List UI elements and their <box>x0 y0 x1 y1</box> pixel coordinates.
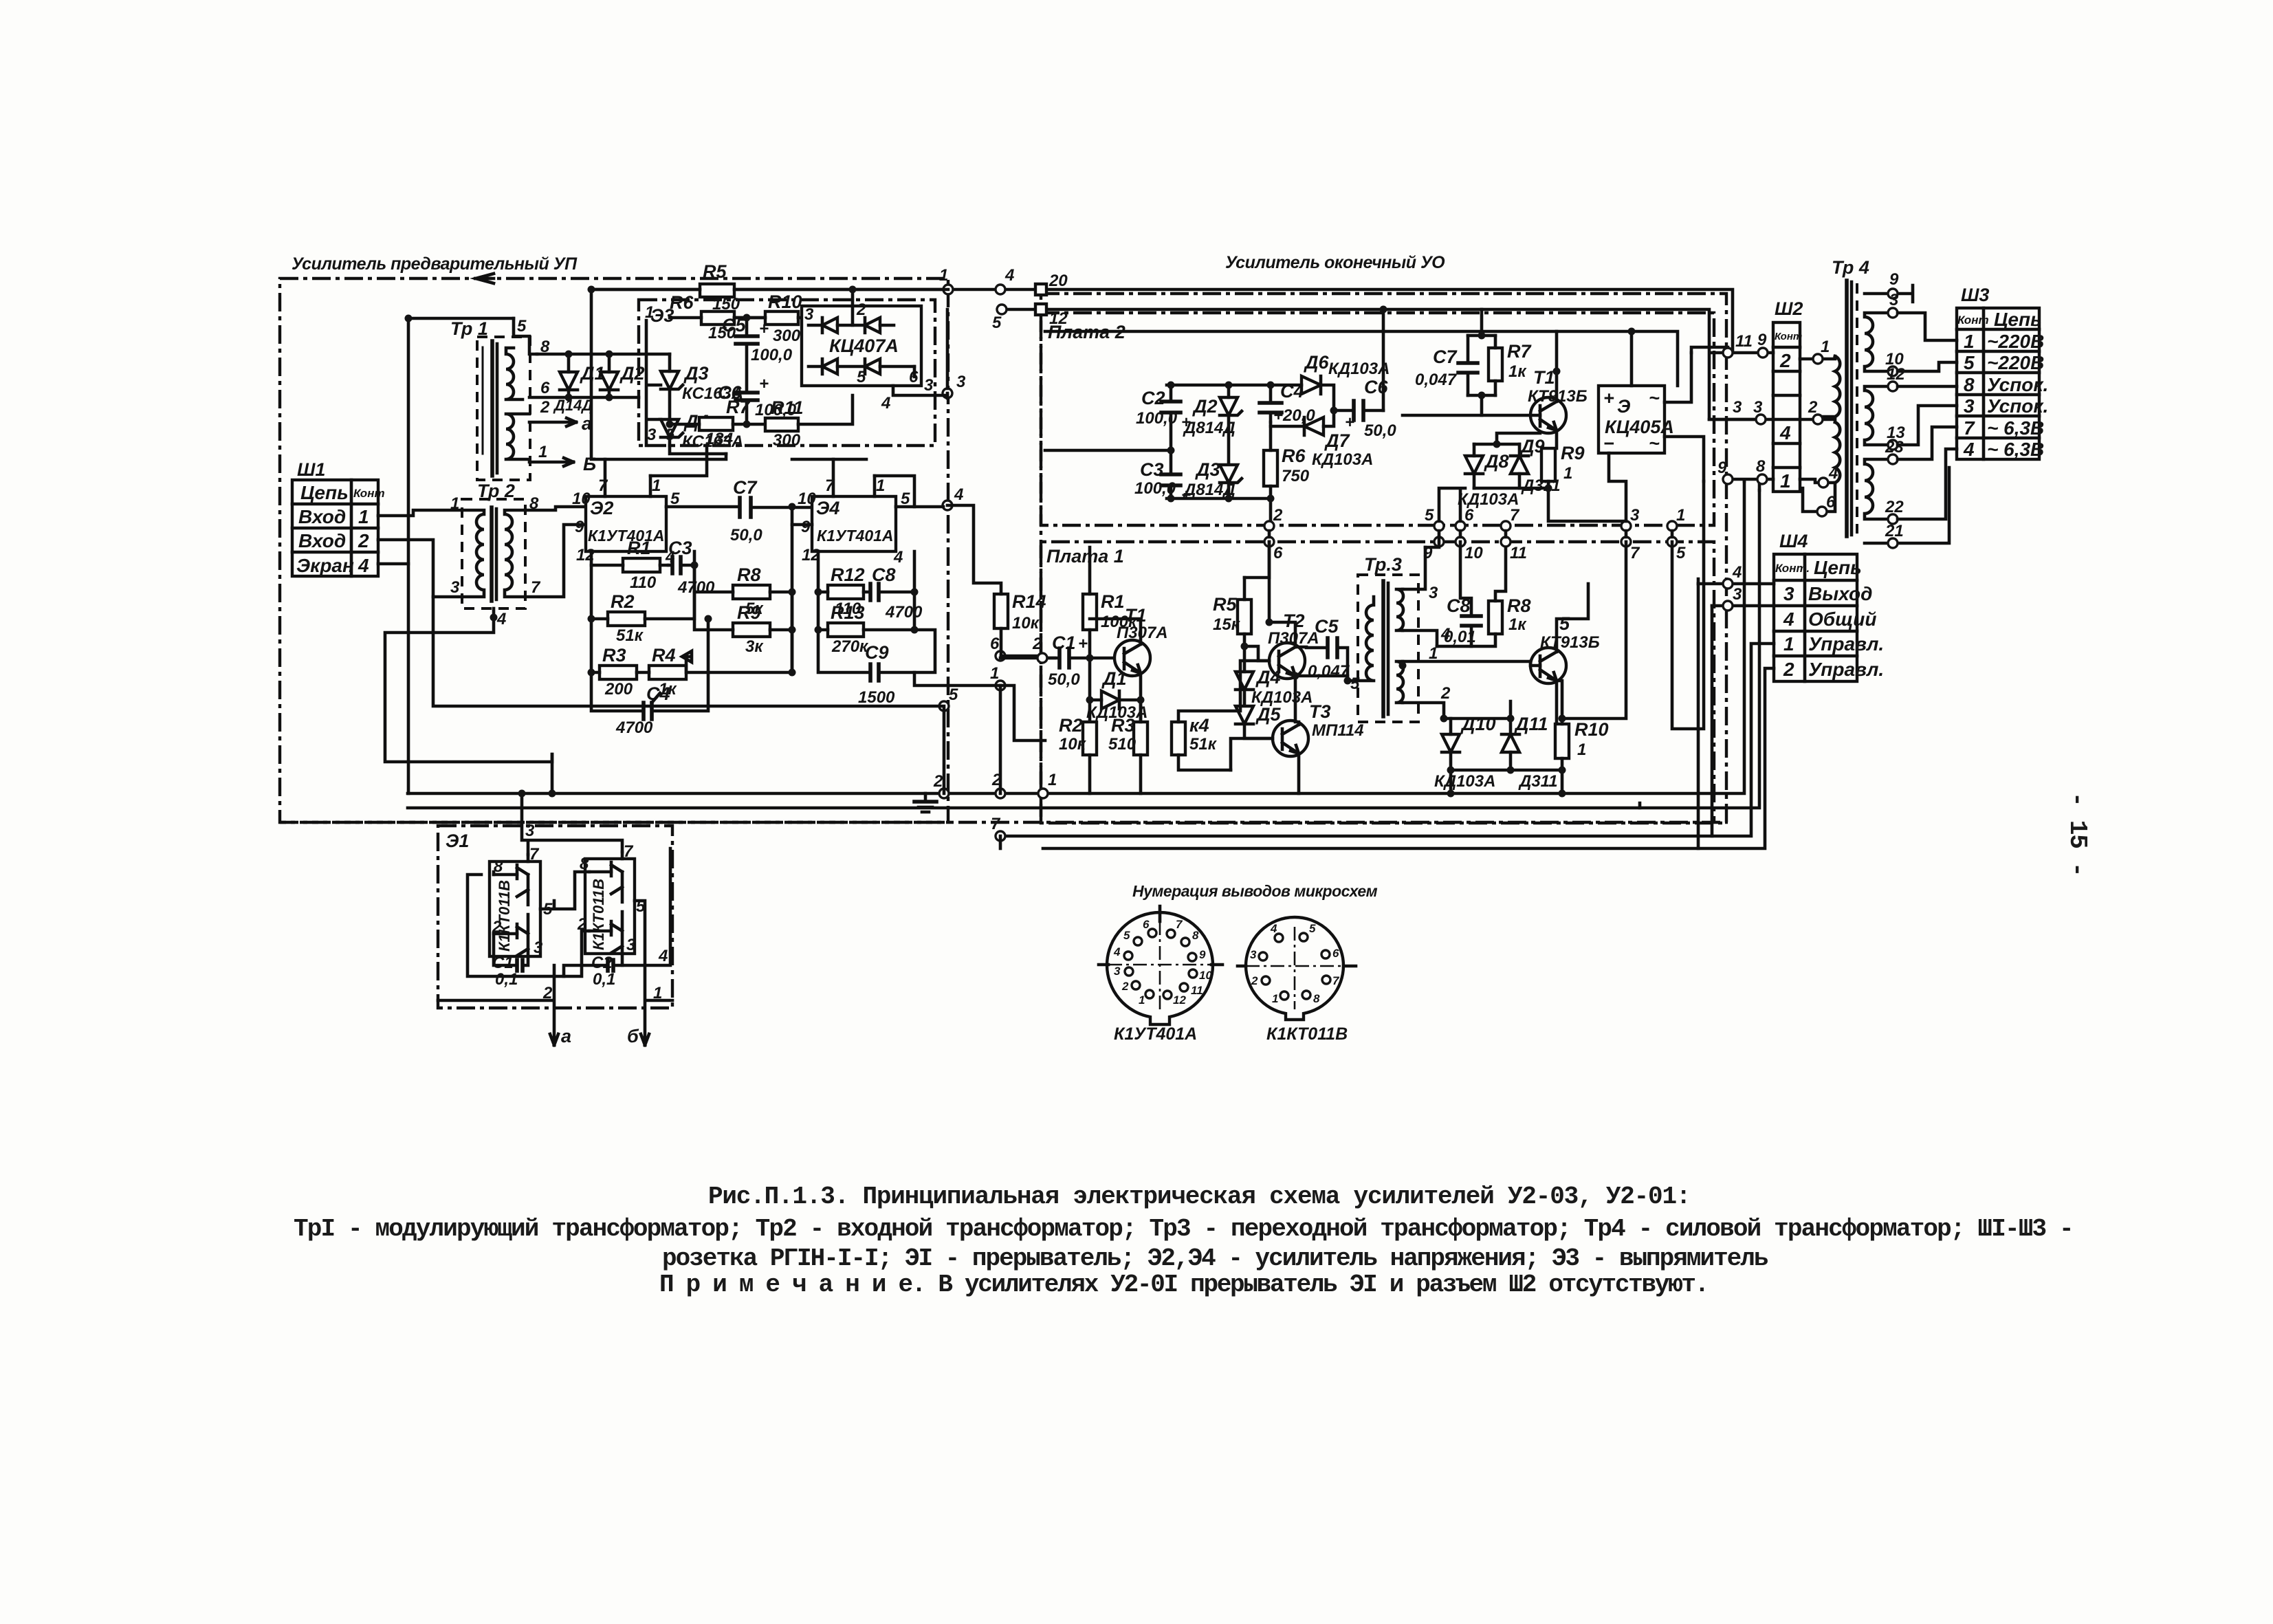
capacitor C3 (UP) <box>668 538 715 597</box>
node 1/5 <box>1667 521 1677 531</box>
svg-text:2: 2 <box>542 984 553 1002</box>
node 3 mid left <box>943 388 952 398</box>
node 6/10 <box>1456 521 1465 531</box>
svg-text:С3: С3 <box>1140 459 1164 480</box>
svg-text:R8: R8 <box>737 564 761 585</box>
svg-text:КТ913Б: КТ913Б <box>1540 633 1600 652</box>
transformer Tr3 <box>1348 547 1530 722</box>
wire: node 6/1 jogs <box>914 672 1000 793</box>
svg-text:3: 3 <box>1753 398 1763 417</box>
wire: misc risers right <box>1672 347 1728 729</box>
svg-text:4: 4 <box>1270 922 1277 935</box>
op-amp U E2 K1UT401A <box>572 459 680 567</box>
svg-text:4: 4 <box>1783 608 1794 630</box>
svg-text:9: 9 <box>1199 948 1206 961</box>
svg-text:+: + <box>1078 635 1088 653</box>
diode D6 KD103A <box>1271 352 1390 410</box>
resistor R8 (UO) <box>1471 547 1531 646</box>
svg-text:К1КТ011В: К1КТ011В <box>496 880 513 952</box>
svg-text:Управл.: Управл. <box>1808 633 1884 655</box>
wire: Tr2 pin7 to E2 pin9 <box>525 525 586 597</box>
svg-text:12: 12 <box>1173 994 1186 1007</box>
Tr3 primary winding <box>1348 597 1374 681</box>
resistor R7 <box>670 397 765 448</box>
svg-text:4: 4 <box>881 394 890 413</box>
transistor block U2 K1KT011V <box>577 842 646 954</box>
svg-text:3: 3 <box>924 376 934 395</box>
transistor Q T5 KT913B <box>1530 584 1600 725</box>
svg-text:3: 3 <box>626 936 636 954</box>
resistor R2 (UO) <box>1059 715 1097 793</box>
svg-text:5: 5 <box>1350 674 1360 693</box>
node 12 square <box>1035 304 1046 315</box>
svg-text:8: 8 <box>1964 374 1975 395</box>
capacitor C5 (UO) <box>1295 616 1350 681</box>
svg-text:6: 6 <box>1464 506 1474 525</box>
svg-text:С1: С1 <box>1052 633 1076 653</box>
node 1 on UP edge top <box>943 285 953 294</box>
wire: R3/R4 rail continues to C9 column <box>708 507 792 672</box>
node 1 lower <box>996 681 1005 690</box>
svg-text:5: 5 <box>517 317 527 336</box>
resistor R2 (UP) <box>591 565 694 645</box>
block frame: Plata 2 dash-dot <box>1041 313 1714 525</box>
svg-text:R10: R10 <box>768 292 802 312</box>
wire: bridge pin2 up to rail <box>851 289 855 325</box>
svg-text:- 15 -: - 15 - <box>2063 792 2091 876</box>
block frame: rectifier E3 dash-dot <box>639 300 935 446</box>
svg-text:Нумерация выводов микросхем: Нумерация выводов микросхем <box>1132 882 1378 900</box>
wire: Sh1 Ekran to trunk <box>378 562 408 566</box>
wire: UO second inner rail from pin 12 <box>1045 331 1678 386</box>
svg-text:8: 8 <box>1192 929 1199 942</box>
wire: node6 rail into UO <box>1001 655 1038 658</box>
svg-text:С2: С2 <box>1141 388 1165 408</box>
svg-text:2: 2 <box>1121 980 1129 993</box>
diode D10 KD103A <box>1434 714 1496 791</box>
wire: Sh4 Upravl rows <box>1698 644 1774 848</box>
transistor block U1 K1KT011V <box>490 845 553 957</box>
capacitor C7 (UP interstage) <box>730 477 812 545</box>
connector Sh2 (vertical strip) <box>1773 298 1803 492</box>
wire: long vertical left trunk <box>407 318 410 793</box>
wire: C1 node and base line <box>1000 657 1055 660</box>
svg-text:21: 21 <box>1885 522 1904 540</box>
svg-text:Д2: Д2 <box>1192 396 1218 417</box>
svg-text:2: 2 <box>1808 398 1818 417</box>
svg-text:7: 7 <box>624 842 634 861</box>
wire: E1 out 4 to right <box>622 848 670 965</box>
svg-text:Усилитель оконечный УО: Усилитель оконечный УО <box>1225 253 1445 272</box>
svg-text:11: 11 <box>1510 544 1527 562</box>
svg-text:КД103А: КД103А <box>1328 360 1390 378</box>
node 11/9 row to Sh2 pin2 <box>1712 351 1773 355</box>
svg-text:2: 2 <box>1032 635 1042 653</box>
node 2 plata edge <box>1264 521 1274 531</box>
svg-text:5: 5 <box>1123 929 1130 942</box>
wire: lower double bus B <box>1043 584 1698 848</box>
svg-text:Д8: Д8 <box>1484 451 1509 472</box>
svg-text:4700: 4700 <box>885 603 923 622</box>
svg-text:1500: 1500 <box>858 688 895 707</box>
capacitor C4 (UO) <box>1260 381 1315 425</box>
wire: E1 bottom exits 2 and 1 <box>438 965 558 1045</box>
wire: Sh1 Vhod1 to Tr2 pin1 <box>378 510 462 516</box>
resistor R5 <box>591 261 948 314</box>
svg-text:П307А: П307А <box>1117 624 1168 642</box>
svg-text:Конт: Конт <box>1957 314 1989 327</box>
transistor Q T2 P307A <box>1268 542 1319 722</box>
svg-text:Общий: Общий <box>1808 608 1877 630</box>
svg-text:270к: 270к <box>831 637 869 656</box>
svg-text:R6: R6 <box>670 292 694 313</box>
svg-text:1: 1 <box>1783 633 1794 655</box>
dash-dot bus across bottom <box>280 821 1728 824</box>
diode D2 <box>600 354 645 397</box>
svg-text:К1УТ401А: К1УТ401А <box>817 527 894 545</box>
IC socket K1KT011V outline <box>1238 917 1356 1044</box>
svg-text:6: 6 <box>1143 918 1150 931</box>
svg-text:3: 3 <box>525 822 535 840</box>
svg-text:4: 4 <box>1828 464 1838 483</box>
wire: Sh4 row3 feed <box>1698 582 1774 586</box>
Tr1 winding lower <box>506 414 529 459</box>
node 20 square UO <box>1035 284 1046 295</box>
resistor R1 (UP) <box>591 538 668 592</box>
wire: bridge output to node3 <box>893 366 947 395</box>
svg-text:С7: С7 <box>733 477 758 498</box>
svg-text:0,01: 0,01 <box>1444 628 1476 646</box>
svg-text:100,0: 100,0 <box>1136 409 1178 428</box>
wire: lower double bus A <box>1000 606 1712 836</box>
svg-text:8: 8 <box>1313 992 1320 1005</box>
svg-text:23: 23 <box>1885 438 1904 457</box>
connector table Sh3 <box>1957 285 2048 460</box>
resistor R9 (UO) <box>1541 443 1626 521</box>
resistor R11 <box>765 395 853 450</box>
svg-text:Усилитель предварительный УП: Усилитель предварительный УП <box>292 254 578 274</box>
wire: E1 cross couple left <box>468 875 589 976</box>
rectifier module KC405A <box>1599 331 1704 521</box>
svg-text:2: 2 <box>856 300 866 319</box>
svg-text:Управл.: Управл. <box>1808 659 1884 680</box>
svg-text:3: 3 <box>1250 948 1257 961</box>
svg-text:1: 1 <box>1780 470 1791 492</box>
svg-text:R2: R2 <box>611 591 635 612</box>
svg-text:R4: R4 <box>652 645 676 666</box>
svg-text:50,0: 50,0 <box>1364 421 1396 440</box>
svg-text:Э2: Э2 <box>590 498 613 518</box>
capacitor C1 (UO) <box>1032 633 1116 689</box>
svg-text:5: 5 <box>1559 613 1570 634</box>
wire: node 7 stub <box>999 836 1002 848</box>
svg-text:Экран: Экран <box>296 555 354 576</box>
svg-text:6: 6 <box>1826 493 1836 512</box>
svg-text:3: 3 <box>450 578 460 597</box>
wire: corner stack <box>1640 579 1698 808</box>
wire: E4 pin7 rail <box>792 458 866 461</box>
svg-text:Д814Д: Д814Д <box>1183 419 1236 437</box>
wire: D10/D11 rails <box>1444 701 1562 770</box>
svg-text:7: 7 <box>1510 506 1520 525</box>
svg-text:1: 1 <box>653 984 662 1002</box>
svg-text:7: 7 <box>1332 974 1340 987</box>
svg-text:Выход: Выход <box>1808 583 1872 604</box>
svg-text:Д10: Д10 <box>1460 714 1496 734</box>
svg-text:11: 11 <box>1735 332 1753 351</box>
wire: node1 to T1 area <box>1000 685 1045 740</box>
svg-text:Конт.: Конт. <box>1775 562 1810 575</box>
svg-text:7: 7 <box>531 578 541 597</box>
svg-text:1: 1 <box>358 506 369 527</box>
pin holes with numbers <box>1148 929 1156 937</box>
svg-text:0,047: 0,047 <box>1415 371 1458 389</box>
svg-text:7: 7 <box>598 476 608 495</box>
svg-text:2: 2 <box>1273 506 1283 525</box>
resistor R3 (UO) <box>1108 700 1148 793</box>
svg-text:К1КТ011В: К1КТ011В <box>1266 1024 1348 1044</box>
node 7/11 <box>1501 521 1511 531</box>
svg-text:3: 3 <box>647 426 657 444</box>
Tr4 secondary winding 2 <box>1865 365 1957 450</box>
svg-text:Т1: Т1 <box>1533 367 1555 388</box>
svg-text:Д11: Д11 <box>1514 714 1548 734</box>
Tr4 secondary winding 1 <box>1865 291 1957 376</box>
wire: D8/D9 rails <box>1439 433 1548 521</box>
svg-text:Д4: Д4 <box>1255 667 1281 688</box>
svg-text:2: 2 <box>540 398 550 417</box>
svg-text:3: 3 <box>1630 506 1640 525</box>
svg-text:R3: R3 <box>1111 715 1135 736</box>
resistor R6 <box>670 292 767 342</box>
svg-text:а: а <box>561 1026 571 1046</box>
Tr4 secondary winding 3 <box>1865 427 1957 524</box>
resistor R10 <box>765 292 809 345</box>
svg-text:R2: R2 <box>1059 715 1083 736</box>
svg-text:2: 2 <box>1783 659 1794 680</box>
svg-text:КЦ405А: КЦ405А <box>1605 417 1674 437</box>
svg-text:Успок.: Успок. <box>1987 395 2048 417</box>
transformer Tr2 <box>450 481 541 628</box>
svg-text:С5: С5 <box>1315 616 1339 637</box>
svg-text:7: 7 <box>1630 544 1640 562</box>
svg-text:2: 2 <box>1440 684 1451 703</box>
svg-text:7: 7 <box>1176 918 1183 931</box>
svg-text:С1: С1 <box>492 954 514 972</box>
svg-text:1к: 1к <box>1508 615 1527 634</box>
svg-text:2: 2 <box>1251 974 1258 987</box>
svg-text:R9: R9 <box>737 602 761 623</box>
capacitor C8 (UP) <box>870 551 923 630</box>
svg-text:1: 1 <box>1821 338 1830 356</box>
svg-text:Т1: Т1 <box>1125 605 1147 626</box>
capacitor C6 (E3) <box>718 375 797 424</box>
svg-text:МП114: МП114 <box>1312 721 1364 740</box>
svg-text:R11: R11 <box>771 397 804 418</box>
svg-text:11: 11 <box>1191 984 1203 997</box>
svg-text:С6: С6 <box>1364 377 1388 397</box>
svg-text:С7: С7 <box>1433 347 1458 367</box>
svg-text:ТрI - модулирующий трансформат: ТрI - модулирующий трансформатор; Тр2 - … <box>294 1215 2073 1243</box>
svg-text:Б: Б <box>583 454 596 474</box>
transformer Tr1 <box>450 317 596 480</box>
svg-text:R1: R1 <box>1101 591 1125 612</box>
svg-text:7: 7 <box>991 815 1001 833</box>
wire: top feed from vertical to Tr1 <box>408 317 514 320</box>
svg-text:4: 4 <box>1779 422 1791 443</box>
svg-text:4: 4 <box>1113 945 1121 958</box>
svg-text:1: 1 <box>939 266 948 285</box>
svg-text:3: 3 <box>1733 398 1742 417</box>
svg-text:7: 7 <box>1964 417 1975 439</box>
wire: T5 emitter to R10 top rail <box>1557 542 1626 718</box>
resistor R5 (UO) <box>1213 578 1251 646</box>
svg-text:1: 1 <box>990 664 999 683</box>
wire: E4 out pin5 to node 4 <box>896 505 943 509</box>
svg-text:5: 5 <box>949 685 958 704</box>
svg-text:~ 6,3В: ~ 6,3В <box>1987 417 2044 439</box>
wire: E2 top pin7 rail <box>591 289 726 459</box>
svg-text:R14: R14 <box>1012 591 1046 612</box>
svg-text:4: 4 <box>658 947 668 965</box>
wire: E1 cross couple right <box>494 872 589 909</box>
zener D3 KS163A <box>661 354 743 419</box>
resistor R12 <box>818 551 869 618</box>
svg-text:+20,0: +20,0 <box>1273 406 1315 425</box>
node 4 mid <box>943 501 952 510</box>
wire: Tr1 pin6 rail <box>529 396 639 399</box>
svg-text:4: 4 <box>1963 439 1975 460</box>
svg-text:R3: R3 <box>602 645 626 666</box>
wire: vertical drop to C6 node <box>1382 309 1385 410</box>
svg-text:Вход: Вход <box>298 506 346 527</box>
resistor R10 (UO) <box>1555 718 1609 770</box>
svg-text:4700: 4700 <box>677 578 715 597</box>
resistor R4 (UO) <box>1172 711 1240 770</box>
svg-text:20: 20 <box>1048 272 1068 290</box>
diode D1 KD103A (UO) <box>1086 658 1148 722</box>
diode D11 D311 <box>1502 714 1558 791</box>
block frame: preamplifier UP dash-dot boundary <box>280 254 948 822</box>
svg-text:КЦ407А: КЦ407А <box>829 336 899 356</box>
junction dots <box>405 286 1636 798</box>
wire: Sh4 row4 feed <box>1712 604 1774 608</box>
svg-text:5: 5 <box>666 426 675 444</box>
svg-text:Рис.П.1.3. Принципиальная элек: Рис.П.1.3. Принципиальная электрическая … <box>708 1183 1690 1211</box>
svg-text:Д5: Д5 <box>1255 704 1281 725</box>
svg-text:R5: R5 <box>703 261 727 282</box>
svg-text:2: 2 <box>1779 350 1791 371</box>
wire: E4 pin9 left <box>792 523 812 527</box>
diode D4 KD103A (UO) <box>1236 646 1313 707</box>
node 5 <box>997 305 1007 314</box>
transistor Q T1 P307A (UO) <box>1090 605 1168 700</box>
connector table Sh4 <box>1774 531 1884 681</box>
svg-text:1: 1 <box>1272 992 1278 1005</box>
diode D5 (UO) <box>1236 704 1281 738</box>
op-amp U E4 K1UT401A <box>798 459 910 567</box>
wire: node3 to rail5 <box>946 309 949 398</box>
zener D4 KS163A <box>661 411 743 451</box>
resistor R9 (UP) <box>694 592 792 672</box>
wire: T2/T3 collector chain to Tr3 <box>1295 676 1348 681</box>
node 2 bus b <box>996 789 1005 798</box>
svg-text:5: 5 <box>1425 506 1434 525</box>
svg-text:к4: к4 <box>1189 715 1209 736</box>
svg-text:розетка РГIН-I-I; ЭI - прерыва: розетка РГIН-I-I; ЭI - прерыватель; Э2,Э… <box>662 1244 1768 1273</box>
wire: R5 to T2 base rail <box>1244 542 1269 661</box>
wire: R4 rail to T3 base / T2 join <box>1231 661 1273 770</box>
resistor R3 (UP) <box>591 619 637 699</box>
svg-text:3: 3 <box>1889 291 1899 309</box>
svg-text:2: 2 <box>358 530 369 551</box>
svg-text:~220В: ~220В <box>1987 331 2044 352</box>
svg-text:3: 3 <box>1733 585 1742 604</box>
rectifier bridge KC407A <box>802 300 921 386</box>
capacitor C2 (UO) electrolytic <box>1136 385 1191 450</box>
svg-text:+: + <box>1603 388 1614 408</box>
svg-text:5: 5 <box>857 368 866 386</box>
svg-text:4: 4 <box>1004 266 1014 285</box>
svg-text:+: + <box>1345 413 1354 432</box>
wire: E1 top node 3 <box>522 793 622 855</box>
svg-text:12: 12 <box>1887 365 1905 384</box>
svg-text:50,0: 50,0 <box>730 526 762 545</box>
svg-text:4: 4 <box>1732 563 1742 582</box>
svg-text:7: 7 <box>825 476 835 495</box>
svg-text:51к: 51к <box>1189 735 1218 754</box>
svg-text:Т3: Т3 <box>1309 701 1331 722</box>
svg-text:Э1: Э1 <box>446 831 469 851</box>
svg-text:Д311: Д311 <box>1518 772 1558 791</box>
svg-text:~: ~ <box>1649 388 1660 408</box>
svg-text:С8: С8 <box>872 564 896 585</box>
capacitor C3 (UO) electrolytic <box>1134 450 1191 505</box>
wire: UO top inner rail <box>1041 289 1733 353</box>
svg-text:10: 10 <box>1199 969 1212 982</box>
svg-text:Д7: Д7 <box>1324 430 1350 451</box>
svg-text:1: 1 <box>1048 771 1057 789</box>
Tr4 primary winding lower <box>1800 398 1840 516</box>
svg-text:КД103А: КД103А <box>1458 490 1519 509</box>
svg-text:5: 5 <box>1964 352 1975 373</box>
svg-text:R9: R9 <box>1561 443 1585 463</box>
svg-text:0,1: 0,1 <box>495 970 518 989</box>
svg-text:4: 4 <box>893 548 903 567</box>
svg-text:R13: R13 <box>831 602 865 623</box>
svg-text:5: 5 <box>1676 544 1686 562</box>
capacitor C1 (E1) <box>492 934 528 989</box>
wire: C7/R7 rails <box>1468 309 1495 415</box>
svg-text:9: 9 <box>1889 270 1899 289</box>
wire: Tr1 pin8 rail to E3 <box>537 353 639 356</box>
Tr3 secondary lower <box>1396 661 1403 703</box>
svg-text:Д3: Д3 <box>683 363 709 384</box>
svg-text:6: 6 <box>540 379 550 397</box>
diode D7 KD103A <box>1271 410 1373 469</box>
resistor R7 (UO) <box>1489 336 1532 395</box>
svg-text:Д1: Д1 <box>1101 668 1127 689</box>
svg-text:10к: 10к <box>1012 614 1040 633</box>
capacitor C8 (UO) <box>1437 542 1481 646</box>
transformer Tr4 core <box>1832 257 1869 536</box>
svg-text:Тр.3: Тр.3 <box>1364 554 1402 575</box>
svg-text:4700: 4700 <box>615 718 653 737</box>
svg-text:10: 10 <box>572 490 591 508</box>
svg-text:134: 134 <box>705 430 733 448</box>
svg-text:750: 750 <box>1282 467 1310 485</box>
Tr4 secondary stub pin 9 <box>1865 270 1913 302</box>
